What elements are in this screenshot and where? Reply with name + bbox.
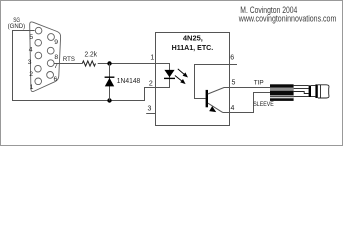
- svg-text:4: 4: [29, 47, 33, 54]
- phototransistor base bar: [206, 90, 208, 107]
- J2 insulator ring 2: [315, 84, 317, 98]
- svg-text:1: 1: [30, 84, 34, 91]
- node B junction bottom: [107, 98, 111, 102]
- J1 pin 9: [48, 34, 55, 41]
- emitter arrowhead: [209, 106, 216, 112]
- svg-text:6: 6: [54, 76, 58, 83]
- svg-text:5: 5: [29, 34, 33, 41]
- net SG (GND) label: [8, 17, 26, 30]
- phototransistor in U1: base wire from pin 6: [195, 65, 238, 99]
- wire U1 pin 4 to plug SLEEVE: [230, 93, 271, 113]
- svg-text:2: 2: [149, 80, 153, 87]
- J2 insulator ring 1: [309, 85, 311, 97]
- LED in U1: anode wire, triangle, cathode bar, wire to pin 2: [156, 64, 176, 88]
- svg-text:1N4148: 1N4148: [117, 78, 141, 85]
- svg-text:6: 6: [230, 55, 234, 62]
- phototransistor emitter to pin 4: [208, 103, 230, 112]
- J1 pin number labels right column: [54, 39, 59, 83]
- optocoupler U1 package outline: [156, 33, 230, 126]
- connector J2 phone plug body: [270, 84, 294, 101]
- wire SG: J1 pin5 left, down, bottom rail to pin2 step: [13, 31, 156, 101]
- J1 pin 2: [35, 65, 42, 72]
- J1 pin 3: [35, 52, 42, 59]
- wire RTS: J1 pin7 to resistor: [54, 63, 82, 65]
- svg-text:3: 3: [28, 59, 32, 66]
- svg-text:H11A1, ETC.: H11A1, ETC.: [172, 43, 214, 52]
- J2 ring section: [311, 86, 315, 97]
- J1 pin 5: [35, 27, 42, 34]
- wire top rail resistor to U1 pin 1: [98, 63, 156, 65]
- J2 tip: [318, 85, 329, 98]
- J1 pin 8: [47, 47, 54, 54]
- resistor R1 2.2k: [82, 61, 95, 66]
- svg-text:5: 5: [232, 80, 236, 87]
- light arrows from LED to phototransistor: [175, 69, 187, 83]
- svg-text:4N25,: 4N25,: [183, 33, 203, 42]
- diode D1 1N4148: [105, 64, 115, 101]
- svg-text:(GND): (GND): [8, 23, 26, 30]
- svg-text:2: 2: [29, 71, 33, 78]
- svg-text:8: 8: [54, 54, 58, 61]
- J1 pin 7: [47, 60, 54, 67]
- svg-text:4: 4: [231, 105, 235, 112]
- J1 pin number labels left column: [28, 34, 34, 91]
- svg-text:www.covingtoninnovations.com: www.covingtoninnovations.com: [238, 13, 336, 24]
- connector J1 DB9 shell: [30, 22, 61, 92]
- svg-text:RTS: RTS: [63, 56, 76, 63]
- svg-text:2.2k: 2.2k: [85, 52, 98, 59]
- node A junction top: [107, 61, 111, 65]
- svg-text:TIP: TIP: [254, 79, 264, 86]
- svg-text:SLEEVE: SLEEVE: [253, 101, 274, 108]
- J2 sleeve shaft: [294, 86, 309, 97]
- U1 pin 3 stub: [146, 113, 155, 115]
- J1 pin 1: [35, 78, 42, 85]
- J1 pin 4: [35, 39, 42, 46]
- J1 pin 6: [47, 72, 54, 79]
- svg-text:1: 1: [150, 55, 154, 62]
- svg-text:3: 3: [148, 106, 152, 113]
- phototransistor collector to pin 5: [208, 88, 230, 95]
- svg-text:9: 9: [54, 39, 58, 46]
- wire U1 pin 5 to plug TIP: [230, 87, 271, 89]
- svg-text:7: 7: [54, 63, 58, 70]
